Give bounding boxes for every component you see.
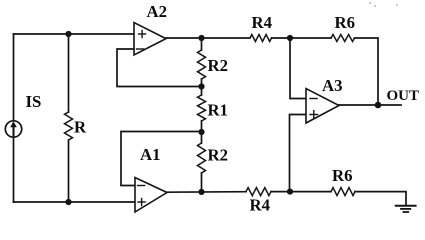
node junction between R4 and R6 (bottom)	[287, 189, 293, 195]
node OUT	[375, 102, 382, 109]
wire A3 output	[339, 104, 378, 106]
resistor R1	[198, 87, 229, 133]
svg-text:R2: R2	[208, 146, 229, 165]
wire middle rail top segment	[201, 38, 203, 50]
node junction R1/R2	[198, 129, 204, 135]
wire left rail	[13, 34, 15, 202]
svg-text:OUT: OUT	[387, 88, 420, 104]
node junction top of R2 chain	[198, 35, 204, 41]
resistor R6 (bottom)	[331, 166, 355, 196]
svg-text:A1: A1	[140, 145, 161, 164]
wire bottom-right corner to ground	[355, 192, 406, 206]
svg-text:R6: R6	[332, 166, 353, 185]
node junction bottom of R2 chain	[198, 189, 204, 195]
wire A1 output row	[167, 191, 246, 194]
wire A3 non-inverting input from bottom junction	[290, 115, 307, 192]
svg-text:R2: R2	[208, 56, 229, 75]
svg-text:R4: R4	[250, 196, 271, 215]
svg-text:R: R	[74, 118, 87, 137]
node junction R bottom	[65, 199, 71, 205]
node junction of R branch on top-left wire	[65, 31, 71, 37]
svg-text:A2: A2	[147, 2, 168, 21]
wire A1 feedback from - input to R1/R2 junction	[121, 132, 202, 186]
svg-text:R4: R4	[252, 13, 273, 32]
resistor R4 (bottom)	[246, 188, 271, 215]
resistor R2 (lower)	[198, 132, 229, 192]
node junction R2/R1	[198, 83, 204, 89]
op-amp A1	[135, 145, 167, 212]
ground	[396, 206, 416, 212]
wire R4 to R6 (bottom)	[271, 191, 331, 193]
wire A3 inverting input from top junction	[290, 38, 306, 99]
resistor R	[65, 34, 88, 202]
wire bottom-left: left rail to A1 + input	[14, 201, 136, 203]
svg-text:R1: R1	[208, 101, 229, 120]
svg-text:A3: A3	[322, 76, 343, 95]
op-amp A2	[134, 2, 167, 55]
wire top-right corner down to output node	[355, 38, 379, 105]
wire OUT stub	[378, 104, 401, 106]
resistor R6 (top)	[331, 13, 355, 42]
resistor R2 (upper)	[198, 50, 229, 87]
wire A2 output to R4	[166, 37, 250, 39]
current source IS	[5, 92, 41, 137]
wire R4 to R6 (top)	[272, 37, 332, 39]
svg-text:R6: R6	[335, 13, 356, 32]
node junction between R4 and R6 (top)	[287, 35, 293, 41]
svg-text:IS: IS	[26, 92, 42, 111]
wire A2 feedback from - input to R2/R1 junction	[117, 49, 202, 87]
op-amp A3	[306, 76, 343, 123]
resistor R4 (top)	[250, 13, 273, 42]
wire top-left: left rail to A2 + input	[14, 33, 135, 35]
